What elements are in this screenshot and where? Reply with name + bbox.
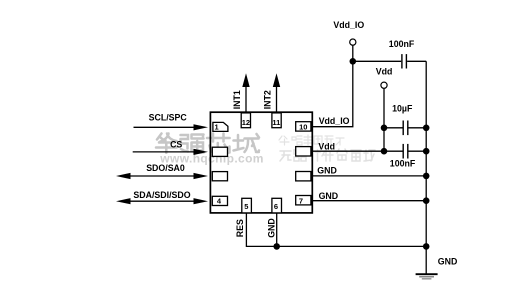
capacitor C2 10uF [384,104,426,135]
pin 3 [212,172,227,181]
元器件在线商城 small row2 [280,151,291,161]
wire Vdd_IO vertical [311,45,353,127]
pin 1 [213,122,228,131]
svg-text:GND: GND [319,191,339,201]
wire GND row2 [311,191,426,201]
capacitor C1 100nF top [353,39,426,68]
pin 7 [296,196,311,206]
svg-text:Vdd_IO: Vdd_IO [319,116,350,126]
pin 6 [272,198,282,213]
svg-text:SDO/SA0: SDO/SA0 [146,163,185,173]
强 [181,135,204,153]
svg-text:RES: RES [235,219,245,237]
svg-text:CS: CS [170,140,182,150]
pin Vdd right [296,147,311,156]
node Vdd_IO supply [333,20,364,45]
pin 11 [272,113,281,128]
junction Vdd/wire [381,148,388,155]
pin 4 [212,196,227,205]
wire GND row1 [311,166,426,176]
svg-text:INT2: INT2 [263,90,273,109]
junction Vdd/10uF [381,125,388,132]
svg-text:11: 11 [272,118,280,127]
svg-text:10µF: 10µF [392,104,413,114]
wire rail right [425,61,427,273]
svg-text:Vdd_IO: Vdd_IO [333,20,364,30]
svg-text:7: 7 [299,197,303,206]
pin 12 [241,113,250,128]
pin 10 [296,122,311,132]
wire INT2 arrow [263,73,281,112]
svg-text:SCL/SPC: SCL/SPC [149,112,188,122]
pin 5 [242,198,252,213]
capacitor C3 100nF bottom [390,144,416,169]
svg-text:5: 5 [244,202,248,211]
城 [234,134,260,152]
junction pin6/bottom [273,243,280,250]
wire GND pin6 [267,213,277,247]
svg-text:100nF: 100nF [390,159,416,169]
pin 2 [212,147,227,156]
junction rail/10uF [423,125,430,132]
ground [416,274,438,279]
wire RES [235,213,426,247]
IC U1 package [210,112,312,213]
svg-text:1: 1 [215,123,219,132]
wire SCL/SPC [134,112,209,130]
svg-text:SDA/SDI/SDO: SDA/SDI/SDO [133,190,190,200]
svg-text:Vdd: Vdd [376,67,393,77]
wire Vdd vertical [383,88,385,151]
wire INT1 arrow [232,73,250,112]
wire SDA/SDI/SDO [116,190,208,205]
pin GND right [296,172,311,181]
junction rail/GND1 [423,173,430,180]
华强集团旗下 small row [279,136,289,145]
芯 [207,134,230,154]
wire SDO/SA0 [116,163,208,179]
svg-text:INT1: INT1 [232,90,242,109]
junction rail/100nF [423,148,430,155]
junction rail/GND2 [423,197,430,204]
wire CS [133,140,208,155]
svg-text:10: 10 [299,122,307,131]
svg-text:Vdd: Vdd [318,142,335,152]
svg-text:GND: GND [438,257,458,267]
node Vdd supply [376,67,393,89]
junction Vdd_IO tee [350,58,357,65]
svg-text:GND: GND [317,166,337,176]
junction rail/bottom [423,243,430,250]
wire Vdd pin [311,142,426,152]
svg-text:6: 6 [274,202,278,211]
svg-text:GND: GND [267,218,277,238]
svg-text:12: 12 [242,118,250,127]
华 [156,134,177,153]
svg-text:100nF: 100nF [389,39,415,49]
